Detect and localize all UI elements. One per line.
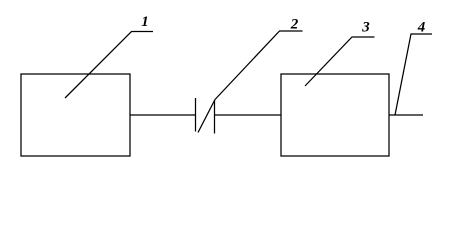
svg-text:3: 3 [361, 20, 370, 36]
leader line 2 (with shelf) [215, 31, 303, 100]
svg-text:1: 1 [141, 14, 149, 30]
block 1 (left rectangle) [21, 74, 130, 156]
svg-text:2: 2 [290, 17, 299, 33]
wire: block 3 output [389, 114, 423, 116]
block 3 (right rectangle) [281, 74, 389, 156]
leader line 4 (with shelf) [395, 34, 432, 115]
capacitor right plate [214, 100, 216, 134]
svg-text:4: 4 [417, 20, 426, 36]
wire: block1 to capacitor [130, 114, 196, 116]
leader line 1 (with shelf) [65, 32, 153, 99]
capacitor left plate [195, 98, 197, 132]
leader line 3 (with shelf) [305, 37, 375, 86]
wire: capacitor to block 3 [215, 114, 282, 116]
capacitor slash (element 2 strike) [198, 100, 215, 133]
